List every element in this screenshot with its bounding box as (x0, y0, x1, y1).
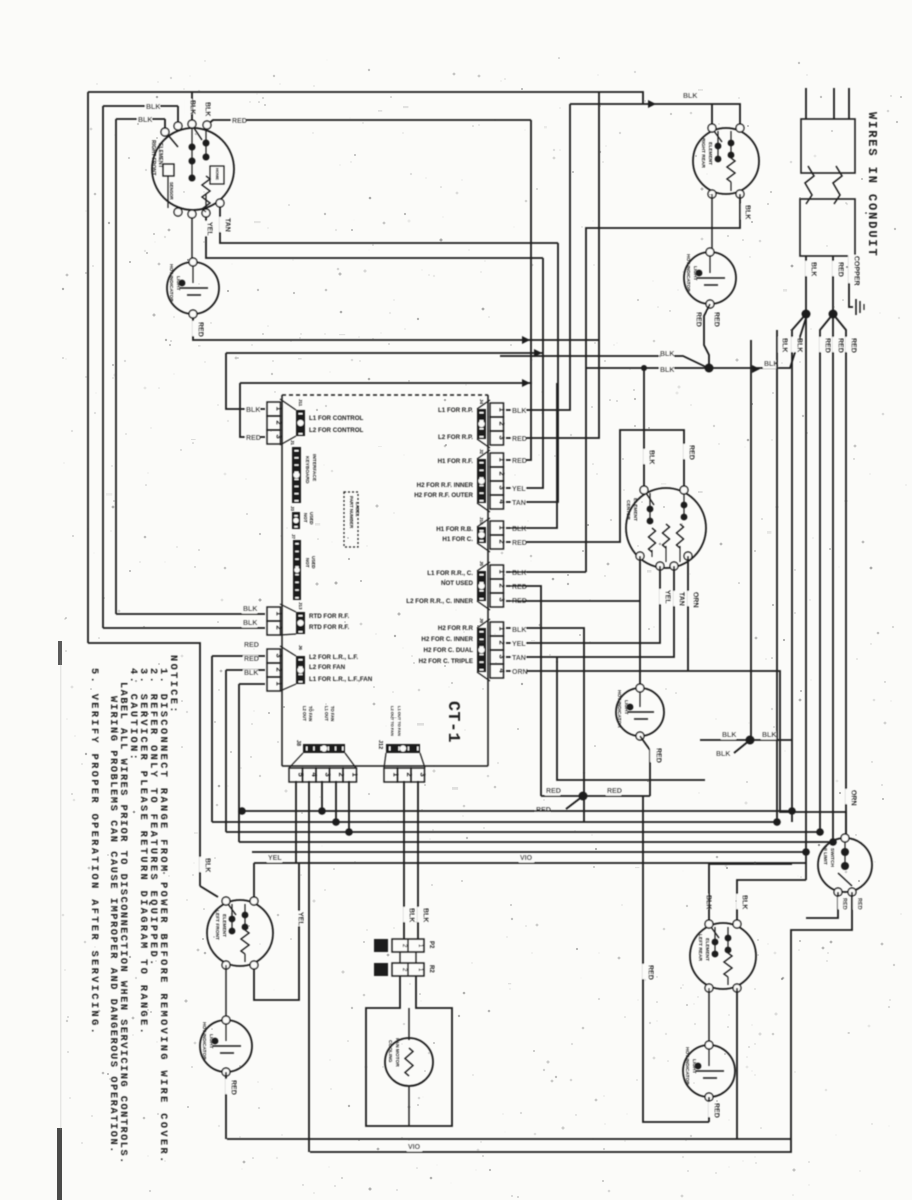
svg-text:TO FAN: TO FAN (308, 706, 313, 721)
wire bus y811 (242, 810, 792, 812)
svg-text:L1 FOR L.R., L.F.,FAN: L1 FOR L.R., L.F.,FAN (309, 676, 373, 683)
hot indicator light (right front) (167, 262, 219, 314)
wire VIO bottom run (310, 1139, 791, 1152)
wire BLK left rear T1 (709, 864, 792, 924)
ground symbol (855, 299, 857, 315)
label RED vertical (683, 444, 691, 459)
label YEL (511, 486, 526, 494)
wire YEL center element (506, 566, 660, 643)
svg-text:BLK: BLK (809, 262, 816, 276)
hi limit switch (818, 838, 872, 892)
lamp filament long bar (180, 287, 208, 289)
connector J10 (490, 521, 504, 535)
connector J7 not used (293, 540, 301, 600)
label BLK (511, 570, 526, 578)
svg-text:J9: J9 (479, 618, 484, 624)
label RED vertical (832, 261, 840, 276)
surface element: LEFT REAR ELEMENT (690, 923, 756, 989)
resistor right front element (202, 176, 210, 212)
wire J11 BLK feed (226, 353, 265, 409)
label BLK (511, 408, 526, 416)
svg-text:HI LIMIT: HI LIMIT (822, 846, 828, 865)
label BLK (242, 620, 257, 628)
label BLK (511, 526, 526, 534)
svg-text:3: 3 (274, 435, 283, 439)
label RED (545, 788, 560, 796)
wire BLK from conduit (805, 256, 807, 314)
svg-text:RED: RED (856, 898, 862, 910)
label YEL (267, 855, 282, 863)
svg-text:L2 FOR CONTROL: L2 FOR CONTROL (309, 427, 364, 434)
label BLK vertical (700, 894, 708, 909)
wire RED from hot light to bus (193, 318, 599, 340)
wire RED branch c (833, 314, 846, 838)
connector J6 (267, 649, 281, 663)
wire BLK junction to conduit BLK (709, 318, 806, 368)
svg-text:P2: P2 (428, 941, 434, 949)
terminal bottom a (174, 208, 182, 216)
svg-text:LIGHT: LIGHT (175, 276, 181, 290)
connector J2 (490, 453, 504, 467)
svg-text:RED: RED (196, 322, 203, 337)
svg-text:H2 FOR R.F. INNER: H2 FOR R.F. INNER (417, 482, 474, 489)
svg-text:RED: RED (712, 1103, 719, 1118)
label BLK (659, 367, 674, 375)
svg-text:H2 FOR R.F. OUTER: H2 FOR R.F. OUTER (414, 492, 473, 499)
label YEL vertical (201, 221, 209, 236)
node (345, 828, 353, 836)
wire bus mid band y353 (226, 352, 543, 354)
label BLK vertical (199, 857, 207, 872)
label RED vertical (650, 747, 658, 762)
label RED vertical (225, 1079, 233, 1094)
wire BLK center element lower (506, 628, 584, 822)
svg-text:RED: RED (687, 445, 694, 460)
label YEL vertical (292, 911, 300, 926)
connector J8 (303, 744, 345, 753)
lamp dot (179, 280, 186, 287)
wire BLK branch a (792, 314, 806, 822)
wires J6 feeds (212, 655, 265, 657)
svg-text:RED: RED (712, 312, 719, 327)
svg-text:L2 FOR R.R., C. INNER: L2 FOR R.R., C. INNER (406, 598, 473, 605)
svg-text:LIGHT: LIGHT (692, 266, 698, 280)
svg-text:WIRING PROBLEMS CAN CAUSE IMP: WIRING PROBLEMS CAN CAUSE IMPROPER AND D… (107, 696, 118, 1154)
svg-text:RIGHT FRONT: RIGHT FRONT (150, 140, 156, 176)
label BLK vertical (643, 449, 651, 464)
label ORN vertical (687, 591, 695, 606)
contact (715, 156, 722, 163)
svg-text:HOT INDICATOR: HOT INDICATOR (616, 690, 622, 728)
svg-text:TAN: TAN (677, 592, 684, 606)
svg-text:BLK: BLK (244, 670, 258, 677)
svg-text:BLK: BLK (743, 205, 750, 219)
wire bottom frame (227, 1138, 791, 1140)
wire RED from conduit (832, 256, 834, 314)
svg-text:J4: J4 (479, 399, 484, 405)
svg-text:L1 OUT: L1 OUT (324, 706, 329, 721)
svg-text:R2: R2 (428, 965, 434, 973)
switch blades right front element (168, 135, 178, 147)
svg-text:J12: J12 (377, 740, 383, 749)
resistor center element 1 (649, 528, 656, 552)
node BLK conduit junction (802, 310, 811, 319)
wire bus mid band y356 (500, 356, 706, 367)
svg-text:J5: J5 (479, 561, 484, 567)
wire RED left rear loop (643, 796, 709, 1122)
wire RED hi limit a (806, 892, 838, 918)
svg-text:TAN: TAN (512, 655, 526, 662)
svg-text:COOLING: COOLING (387, 1040, 393, 1063)
svg-text:L1 FOR R.R., C.: L1 FOR R.R., C. (427, 570, 473, 577)
contact (728, 152, 735, 159)
svg-text:BLK: BLK (243, 606, 257, 613)
svg-text:BLK: BLK (795, 338, 802, 352)
wire YEL right-front H2 inner (206, 213, 543, 258)
svg-text:RED: RED (849, 338, 856, 353)
part number label box (344, 492, 358, 547)
node BLK-BLK lower junction (746, 736, 755, 745)
label BLK (511, 627, 526, 635)
terminal L2 (188, 120, 196, 128)
svg-text:YEL: YEL (512, 641, 526, 648)
node bus ends (238, 807, 246, 815)
svg-text:J2: J2 (479, 449, 484, 455)
svg-text:CENTER: CENTER (625, 500, 631, 520)
wire RED right-front H1 (207, 120, 531, 125)
label RED vertical (708, 311, 716, 326)
svg-text:3: 3 (497, 486, 506, 490)
label RED vertical (838, 897, 845, 909)
wire bus y852 (252, 851, 806, 853)
svg-text:BLK: BLK (704, 895, 711, 909)
connector J1 keyboard interface (292, 447, 301, 503)
svg-text:L1 OUT TO FAN: L1 OUT TO FAN (397, 706, 402, 736)
svg-text:COPPER: COPPER (852, 256, 859, 286)
wire branch to lower region (557, 657, 705, 780)
terminal L1a (161, 128, 169, 136)
label VIO (519, 855, 534, 863)
label YEL (511, 641, 526, 649)
svg-text:BLK: BLK (203, 858, 210, 872)
svg-text:USED: USED (309, 512, 314, 525)
arrowhead on BLK run (648, 100, 656, 108)
wire BLK right rear L1 to J5-1 (586, 194, 740, 572)
svg-text:LABEL: LABEL (355, 502, 360, 517)
svg-text:BLK: BLK (762, 732, 776, 739)
wire motor to loop (408, 1086, 410, 1126)
svg-text:BLK: BLK (407, 908, 414, 922)
wire element to hot light left rear (708, 988, 710, 1045)
svg-text:L2 OUT TO FAN: L2 OUT TO FAN (390, 706, 395, 736)
label BLK vertical (805, 261, 813, 276)
control board CT-1 outline (282, 394, 488, 396)
wire COPPER to ground (849, 256, 853, 307)
svg-text:L2 FOR R.P.: L2 FOR R.P. (438, 434, 473, 441)
svg-text:ORN: ORN (849, 790, 856, 806)
svg-text:J11: J11 (298, 399, 303, 407)
hot indicator light (left front) (200, 1020, 252, 1072)
svg-text:J8: J8 (295, 740, 301, 746)
svg-text:L2 OUT: L2 OUT (302, 706, 307, 721)
svg-text:2: 2 (497, 584, 506, 588)
svg-text:HOT INDICATOR: HOT INDICATOR (684, 1047, 690, 1085)
label RED vertical (853, 897, 860, 909)
svg-text:1: 1 (497, 526, 506, 530)
svg-text:1: 1 (351, 773, 360, 777)
label BLK (243, 670, 258, 678)
svg-text:1: 1 (392, 773, 401, 777)
svg-text:L1 FOR CONTROL: L1 FOR CONTROL (309, 415, 364, 422)
wire RED left front light to frame (225, 1072, 227, 1139)
terminal bottom c (202, 209, 210, 217)
lamp filament short bar (187, 294, 201, 296)
svg-text:RED: RED (823, 338, 830, 353)
svg-text:PART NUMBER: PART NUMBER (349, 496, 354, 529)
svg-text:BLK: BLK (716, 751, 730, 758)
label TAN vertical (673, 591, 681, 606)
svg-text:VIO: VIO (408, 1144, 421, 1151)
svg-text:HOT INDICATOR: HOT INDICATOR (201, 1022, 207, 1060)
label TAN vertical (219, 217, 227, 232)
wire RED center element feed from J10-2 (506, 430, 684, 542)
contact (728, 140, 735, 147)
svg-text:J6: J6 (298, 645, 303, 651)
wire BLK main top run (192, 92, 643, 104)
svg-text:RED: RED (246, 435, 261, 442)
arrowhead bus c (522, 379, 530, 387)
svg-text:BLK: BLK (512, 627, 526, 634)
label RED (511, 458, 526, 466)
svg-text:1: 1 (497, 627, 506, 631)
svg-text:YEL: YEL (296, 912, 303, 926)
svg-text:2: 2 (274, 668, 283, 672)
svg-text:TAN: TAN (512, 500, 526, 507)
scan edge faint streak (60, 660, 61, 1130)
label RED vertical (642, 964, 650, 979)
svg-text:KEYBOARD: KEYBOARD (304, 456, 310, 484)
surface element: CENTER ELEMENT (626, 488, 706, 568)
svg-text:BLK: BLK (203, 102, 210, 116)
wire BLK center element feed (643, 368, 645, 490)
wire element to hot indicator light (191, 218, 193, 262)
svg-text:CT-1: CT-1 (444, 701, 463, 743)
svg-text:2: 2 (274, 626, 283, 630)
svg-text:BLK: BLK (188, 100, 195, 114)
label RED vertical (192, 321, 200, 336)
svg-text:RIGHT REAR: RIGHT REAR (700, 138, 706, 168)
wire drop to element switch (164, 119, 166, 132)
svg-text:RED: RED (646, 965, 653, 980)
label BLK (763, 361, 778, 369)
label TAN (511, 655, 526, 663)
svg-text:3: 3 (419, 773, 428, 777)
hot indicator light (center) (616, 688, 664, 736)
switch blade (711, 927, 719, 938)
label RED (535, 807, 550, 815)
svg-text:YEL: YEL (663, 590, 670, 604)
svg-text:LIGHT: LIGHT (691, 1059, 697, 1073)
wire BLK frame 2 to J13-2 (103, 105, 178, 107)
resistor right rear element (727, 158, 735, 182)
label RED vertical (690, 311, 698, 326)
hot indicator light (left rear) (683, 1045, 735, 1097)
wire RED hi limit b (791, 892, 852, 1139)
svg-text:BLK: BLK (146, 104, 160, 111)
svg-text:3: 3 (274, 654, 283, 658)
svg-text:2: 2 (497, 422, 506, 426)
wire J11 RED feed (240, 383, 265, 437)
label RED (511, 540, 526, 548)
wire L1 BLK top feed (88, 91, 192, 93)
svg-text:BLK: BLK (740, 895, 747, 909)
svg-text:FAN MOTOR: FAN MOTOR (394, 1038, 400, 1067)
svg-text:2: 2 (497, 472, 506, 476)
label BLK (761, 732, 776, 740)
cooling fan motor loop (366, 976, 452, 1126)
terminal bottom d (216, 199, 224, 207)
wire YEL left front element (253, 863, 255, 901)
wire J10-1 BLK (506, 383, 557, 528)
node RED conduit junction (829, 310, 838, 319)
wires P2 to R2 (399, 952, 401, 963)
svg-text:H2 FOR C. DUAL: H2 FOR C. DUAL (424, 647, 474, 654)
wire left rear B2 to frame (736, 988, 738, 1139)
label RED (245, 435, 260, 443)
label RED (606, 788, 621, 796)
label COPPER vertical (848, 255, 856, 283)
node RED junction (579, 792, 588, 801)
resistor left front element (241, 930, 249, 954)
label RED (243, 642, 258, 650)
surface element: RIGHT FRONT ELEMENT (152, 128, 234, 210)
svg-text:YEL: YEL (205, 222, 212, 236)
contact line (191, 128, 193, 178)
wire BLK branch b (805, 314, 807, 880)
svg-text:SENSOR: SENSOR (169, 182, 174, 200)
service wires entering conduit (805, 88, 807, 119)
svg-text:1: 1 (497, 408, 506, 412)
svg-text:VIO: VIO (520, 855, 533, 862)
svg-text:J3: J3 (290, 506, 295, 512)
svg-text:L2 FOR L.R., L.F.: L2 FOR L.R., L.F. (309, 654, 358, 661)
label VIO (407, 1144, 422, 1152)
svg-text:ORN: ORN (691, 592, 698, 608)
resistor center element 2 (663, 524, 670, 548)
svg-text:TO FAN: TO FAN (330, 706, 335, 721)
svg-text:NOT: NOT (303, 513, 308, 523)
switch blade (646, 493, 654, 505)
wire to motor (408, 1008, 410, 1040)
svg-text:3: 3 (497, 598, 506, 602)
wire RED lower junction run (541, 795, 650, 797)
arrowhead BLK junction (752, 365, 760, 373)
svg-text:BLK: BLK (512, 526, 526, 533)
limiter box right front element (210, 166, 224, 184)
arrowhead bus a (522, 336, 530, 344)
label BLK (137, 117, 152, 125)
label RED vertical (832, 337, 840, 352)
label ORN vertical (845, 789, 853, 804)
label BLK vertical (403, 907, 411, 922)
surface element: LEFT FRONT ELEMENT (207, 900, 273, 966)
wire drop to element terminal (177, 106, 179, 126)
wire riser to right front element pin (191, 92, 193, 124)
label BLK vertical (184, 99, 192, 114)
connector J9 (490, 622, 504, 636)
svg-text:RED: RED (244, 642, 259, 649)
svg-text:H1 FOR R.B.: H1 FOR R.B. (436, 526, 473, 533)
svg-text:5. VERIFY PROPER OPERATION AFT: 5. VERIFY PROPER OPERATION AFTER SERVICI… (88, 668, 99, 1036)
wire BLK jumper diagonal (734, 740, 750, 753)
connector J5 (490, 565, 504, 579)
label RED (511, 598, 526, 606)
wire RED hot light to bus (704, 304, 710, 364)
svg-text:H1 FOR C.: H1 FOR C. (442, 536, 473, 543)
svg-text:2: 2 (274, 421, 283, 425)
svg-text:J7: J7 (291, 534, 296, 540)
wire BLK left front feed (200, 886, 218, 897)
svg-text:ELEMENT: ELEMENT (704, 938, 710, 961)
svg-text:ELEMENT: ELEMENT (221, 914, 227, 937)
svg-text:YEL: YEL (512, 486, 526, 493)
label RED (243, 656, 258, 664)
wire bus mid band y368 (586, 367, 709, 369)
connector J13 (267, 607, 281, 621)
connector P2 (392, 939, 424, 952)
svg-text:3: 3 (497, 436, 506, 440)
svg-text:HOT INDICATOR: HOT INDICATOR (685, 254, 691, 292)
wire J12 pin drops (403, 781, 405, 939)
connector R2 (392, 963, 424, 976)
sensor box right front element (163, 164, 174, 176)
scan edge artifact bottom (57, 1128, 62, 1200)
svg-text:BLK: BLK (660, 351, 674, 358)
wire right region frame (750, 340, 752, 740)
connector J3 not used (292, 512, 300, 529)
label BLK (245, 407, 260, 415)
svg-text:BLK: BLK (512, 570, 526, 577)
svg-text:HOME: HOME (215, 168, 220, 180)
wire bus y832 (226, 831, 820, 833)
contact (715, 143, 722, 150)
wire BLK jumper (700, 739, 792, 741)
svg-text:SWITCH: SWITCH (829, 848, 835, 867)
svg-text:RED: RED (694, 312, 701, 327)
wire BLK frame 3 to J13-1 (116, 118, 165, 120)
wire RED branch b (832, 314, 834, 842)
label ORN (511, 669, 526, 677)
label YEL vertical (659, 589, 667, 604)
svg-text:1: 1 (497, 570, 506, 574)
label BLK vertical (199, 101, 207, 116)
label RED vertical (845, 337, 853, 352)
svg-text:H2 FOR R.R: H2 FOR R.R (438, 625, 474, 632)
connector J11 (267, 402, 281, 416)
switch blade (714, 131, 722, 142)
label RED (511, 584, 526, 592)
conduit box upper (801, 119, 855, 173)
label RED (511, 436, 526, 444)
wire right rear element to hot light (711, 194, 713, 252)
svg-text:RTD FOR R.F.: RTD FOR R.F. (309, 624, 349, 631)
svg-text:RED: RED (607, 788, 622, 795)
svg-text:LEFT REAR: LEFT REAR (697, 934, 703, 961)
label RED vertical (819, 337, 827, 352)
node (332, 818, 340, 826)
terminal L1b (174, 122, 182, 130)
wire YEL loop right (254, 863, 299, 1000)
